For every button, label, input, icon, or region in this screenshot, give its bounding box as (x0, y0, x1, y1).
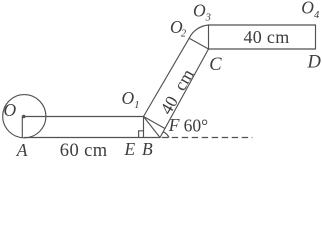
radius O to A (21, 117, 23, 138)
incline surface B to C (160, 49, 209, 138)
svg-text:C: C (209, 55, 222, 75)
svg-text:60°: 60° (184, 116, 209, 136)
right edge at D (315, 25, 317, 49)
svg-text:O: O (4, 100, 17, 120)
svg-text:40 cm: 40 cm (244, 27, 290, 47)
svg-text:O4: O4 (301, 0, 320, 21)
angle arc at B (164, 132, 169, 137)
svg-text:60 cm: 60 cm (60, 141, 108, 161)
svg-text:O1: O1 (122, 88, 140, 111)
segment O2 to C (189, 38, 208, 49)
svg-text:40cm: 40cm (156, 65, 198, 117)
svg-text:D: D (307, 53, 322, 73)
circle (wheel) at O (3, 95, 46, 138)
svg-text:B: B (142, 139, 153, 159)
dashed extension from B (162, 137, 253, 139)
right angle mark at E (139, 131, 144, 138)
svg-text:E: E (124, 139, 136, 159)
arc O2 to O3 (189, 25, 208, 38)
center path O3 to O4 (209, 24, 316, 26)
svg-text:A: A (16, 140, 28, 160)
svg-text:F: F (168, 115, 180, 135)
segment O1 to F (144, 117, 165, 129)
perpendicular O1 to E (143, 117, 145, 138)
center path O to O1 (24, 116, 144, 118)
svg-text:O2: O2 (170, 17, 187, 40)
incline center path O1 to O2 (144, 38, 190, 116)
segment O3 to C (208, 25, 210, 49)
segment O1 to B (144, 117, 161, 138)
center dot O (22, 115, 26, 119)
top surface C to D (209, 48, 316, 50)
ground line A to B (25, 137, 161, 139)
svg-text:O3: O3 (193, 0, 211, 23)
